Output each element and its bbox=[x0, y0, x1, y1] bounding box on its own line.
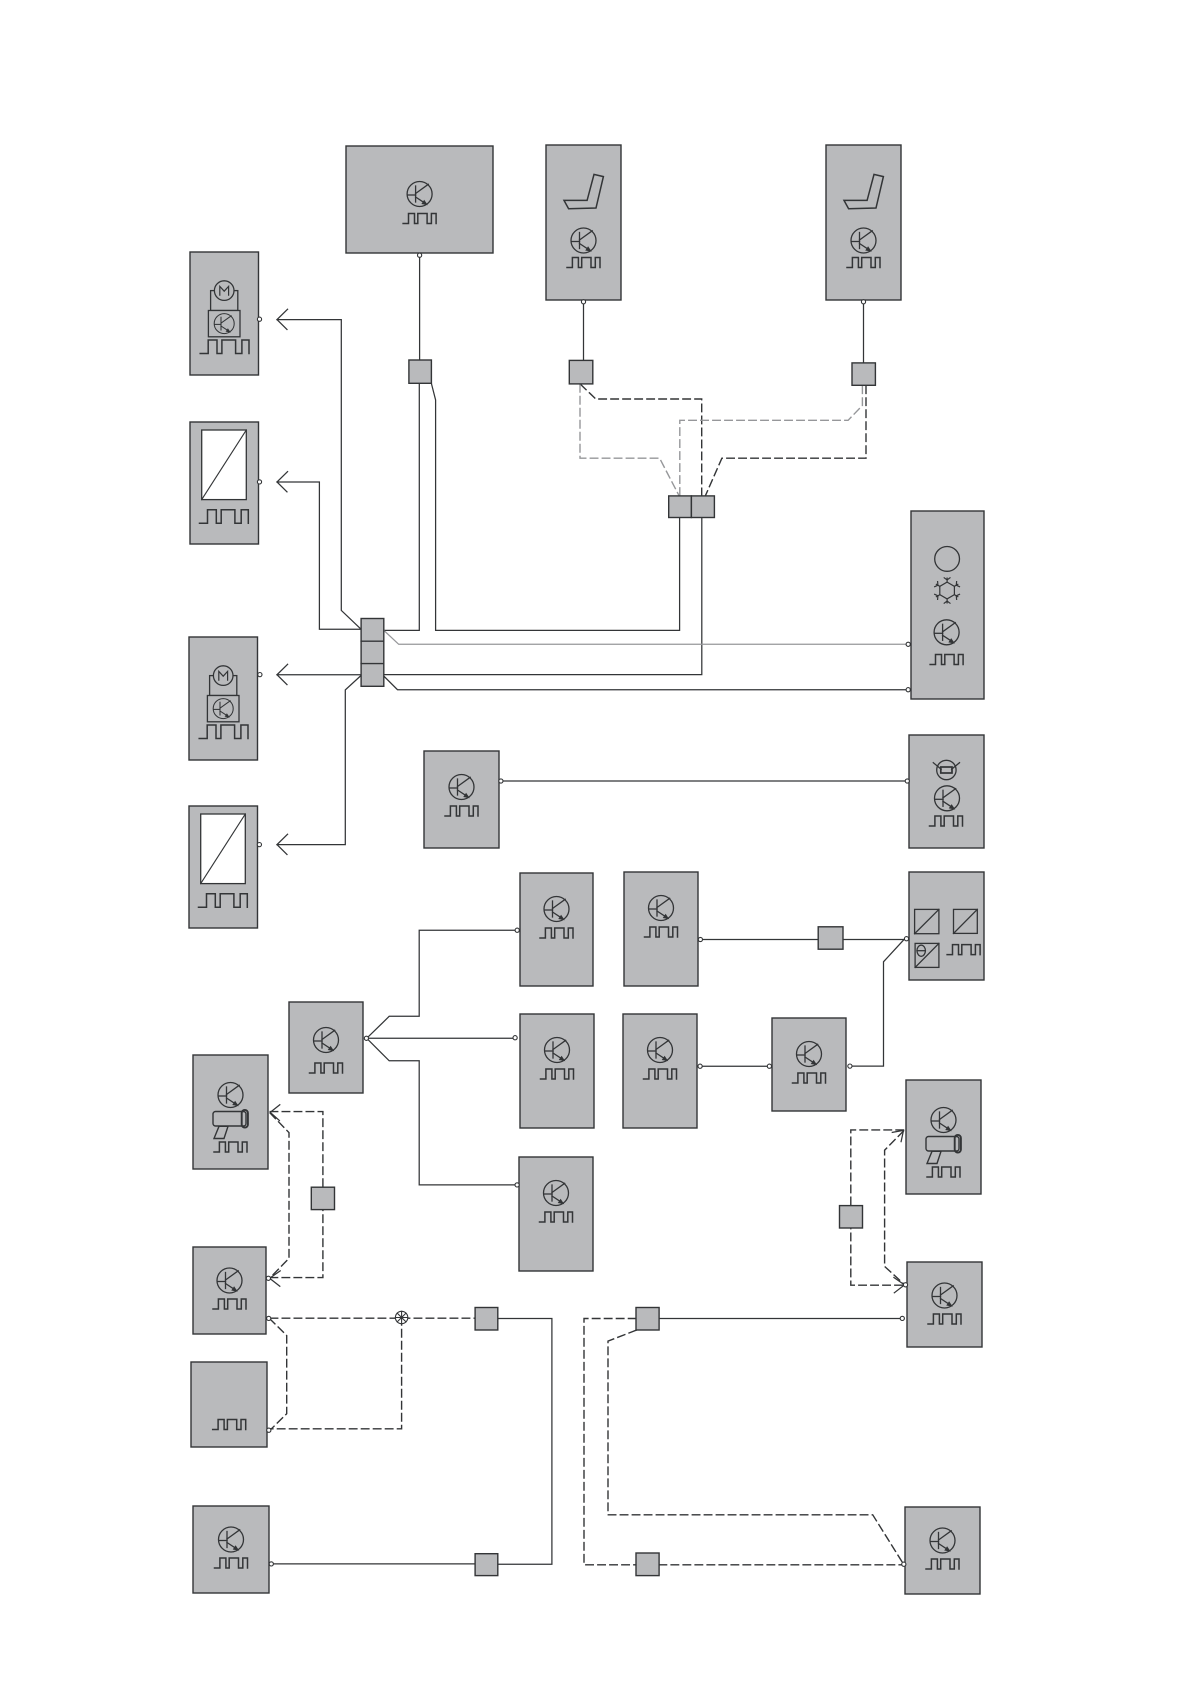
wire: module Q up to display unit M pin bbox=[852, 939, 905, 1066]
wire: module L through connector T4 to display unit M bbox=[702, 939, 904, 941]
dashed wire: connector T7 loop to connector T8 bbox=[584, 1319, 636, 1565]
connector T9 (X harness) bbox=[475, 1554, 498, 1576]
wire: connector T9 right around to connector T7 bbox=[498, 1319, 552, 1565]
wire: junction stack bottom cell right to splice X1 right cell bbox=[384, 518, 702, 675]
seat adjustment module C bbox=[826, 145, 901, 304]
arrowhead into door unit U upper pin bbox=[270, 1271, 281, 1286]
dashed wire: star junction down to module V bbox=[270, 1318, 401, 1429]
arrowhead into module W upper pin bbox=[894, 1278, 905, 1293]
wire: module X to connector T9 bbox=[273, 1563, 475, 1565]
mirror unit E bbox=[190, 422, 262, 544]
wire: seat module B pin down to connector T2 bbox=[583, 304, 585, 360]
wire: seat module C pin down to connector T3 bbox=[863, 304, 865, 363]
wire: junction stack bottom diagonal to climate unit H lower pin bbox=[384, 677, 906, 690]
wire: arrow to door unit D from junction stack bbox=[277, 320, 361, 630]
wire: junction stack top diagonal to climate unit H upper pin (gray) bbox=[384, 631, 906, 645]
dashed wire: connector T2 to splice X1 left cell (gray) bbox=[580, 385, 679, 496]
wire: gateway J to sensor unit I bbox=[503, 780, 905, 782]
dashed wire: connector T8 to module Y bbox=[659, 1564, 901, 1566]
module Q bbox=[767, 1018, 852, 1111]
module O bbox=[513, 1014, 594, 1128]
heated washer unit S bbox=[906, 1080, 981, 1194]
module K bbox=[515, 873, 593, 986]
connector T7 (W harness) bbox=[636, 1308, 659, 1331]
connector T1 (below roof ECU A) bbox=[409, 360, 432, 383]
connector T4 (between L and M) bbox=[818, 927, 843, 949]
dashed wire: connector T7 corner down to module Y bbox=[608, 1330, 903, 1563]
connector T3 (below seat module C) bbox=[852, 363, 875, 385]
wire: connector T1 left lead down to junction stack top cell bbox=[384, 384, 419, 631]
mirror unit G bbox=[189, 806, 262, 928]
module L bbox=[624, 872, 703, 986]
gateway module J bbox=[424, 751, 503, 848]
dashed wire: connector T3 to splice X1 right cell bbox=[705, 386, 866, 496]
dashed wire: door unit U lower pin to star junction to connector T6 bbox=[270, 1317, 475, 1319]
module X bbox=[193, 1506, 273, 1593]
dashed wire: connector T3 to splice X1 left cell (gray) bbox=[680, 386, 863, 496]
dashed wire: connector T2 to splice X1 right cell bbox=[581, 385, 702, 496]
module Y bbox=[902, 1507, 980, 1594]
arrowhead into heated unit R bbox=[270, 1105, 280, 1121]
splice connector X1 (double) bbox=[669, 496, 715, 518]
star junction (lamp splice) bbox=[395, 1311, 407, 1323]
dashed wire: heated unit S to module W direct bbox=[885, 1131, 905, 1285]
dashed wire: heated unit R through connector T5 to door unit U bbox=[270, 1112, 323, 1278]
connector T10 (S-W harness) bbox=[840, 1206, 863, 1228]
window motor unit F bbox=[189, 637, 262, 760]
wire: arrow to mirror G from junction stack bbox=[277, 675, 361, 844]
seat adjustment module B bbox=[546, 145, 621, 304]
node module N bbox=[289, 1002, 369, 1093]
module T bbox=[515, 1157, 593, 1271]
wire: node N down to module T bbox=[367, 1038, 515, 1185]
module P bbox=[623, 1014, 702, 1128]
door unit U bbox=[193, 1247, 271, 1334]
dashed wire: heated unit S through connector T10 to module W bbox=[851, 1130, 904, 1285]
wire: connector T1 right lead down and right to splice X1 left cell bbox=[431, 384, 679, 631]
junction stack (triple connector) bbox=[361, 619, 384, 687]
roof control ECU A bbox=[346, 146, 493, 257]
wire: node N up to module K bbox=[367, 930, 516, 1038]
climate control unit H bbox=[906, 511, 984, 699]
heated washer unit R bbox=[193, 1055, 268, 1169]
wire: node N to module O bbox=[367, 1037, 513, 1039]
wire: arrow to mirror E from junction stack bbox=[277, 482, 361, 629]
wire: connector T8 to module W lower pin bbox=[659, 1318, 900, 1320]
dashed wire: door unit U lower pin down to module V bbox=[270, 1319, 287, 1430]
module W bbox=[900, 1262, 982, 1347]
connector T6 (U-W harness) bbox=[475, 1308, 498, 1331]
dashed wire: heated unit R to door unit U direct bbox=[270, 1113, 289, 1278]
display/heated-window unit M bbox=[904, 872, 984, 980]
connector T5 (R-U harness) bbox=[311, 1187, 334, 1209]
wire: arrow to door unit F from junction stack bbox=[277, 674, 361, 676]
wire: module P to module Q bbox=[702, 1065, 767, 1067]
module V (pulse only) bbox=[191, 1362, 271, 1447]
connector T2 (below seat module B) bbox=[569, 360, 593, 384]
connector T8 (Y harness) bbox=[636, 1553, 659, 1576]
arrowhead into heated unit S bbox=[892, 1130, 903, 1141]
sensor unit I (heater element) bbox=[905, 735, 984, 848]
wire: roof ECU A pin down to connector T1 bbox=[419, 257, 421, 360]
window motor unit D bbox=[190, 252, 262, 375]
